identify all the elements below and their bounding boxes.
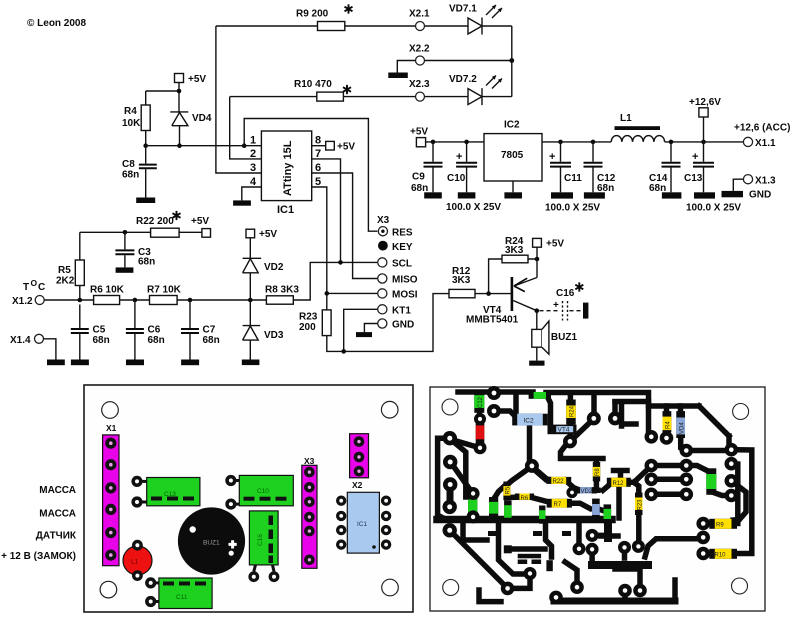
svg-text:C12: C12: [478, 396, 484, 408]
svg-text:R4: R4: [666, 421, 672, 429]
svg-text:IC1: IC1: [277, 204, 294, 216]
node X1.1: [743, 137, 752, 146]
resistor R7 smd: [547, 499, 572, 508]
wire R10 net: [230, 96, 512, 98]
svg-text:МАССА: МАССА: [39, 509, 76, 520]
node X2.2: [416, 56, 425, 65]
trace R9 left: [704, 521, 714, 527]
svg-text:200: 200: [299, 322, 316, 333]
capacitor C13: [703, 142, 705, 192]
svg-text:R6: R6: [521, 496, 529, 502]
trace mid row 3: [651, 492, 686, 498]
svg-text:3K3: 3K3: [452, 275, 471, 286]
svg-text:+ 12 В (ЗАМОК): + 12 В (ЗАМОК): [1, 551, 76, 562]
trace R5 top diag: [508, 467, 531, 485]
cap C9 smd: [706, 468, 716, 495]
cap C14 smd: [468, 494, 477, 518]
cap C7 smd: [604, 504, 612, 523]
node KT1: [378, 305, 387, 314]
diode VD4 smd: [676, 411, 685, 438]
svg-text:C: C: [38, 282, 45, 293]
capacitor C11 pcb: [151, 581, 161, 584]
svg-text:R23: R23: [299, 312, 318, 323]
capacitor C16 pcb: [249, 511, 278, 565]
svg-text:ATtiny 15L: ATtiny 15L: [282, 140, 294, 196]
svg-text:ДАТЧИК: ДАТЧИК: [36, 531, 77, 542]
svg-text:BUZ1: BUZ1: [203, 540, 220, 547]
trace R10 right up: [731, 450, 752, 554]
wire R9 vertical to pin3: [216, 26, 262, 173]
svg-text:BUZ1: BUZ1: [551, 332, 578, 343]
mcu IC1: [261, 131, 311, 201]
svg-text:C11: C11: [176, 594, 188, 601]
mounting hole TR: [733, 404, 749, 420]
svg-text:68n: 68n: [203, 335, 220, 346]
trace VD4 verticals: [678, 406, 684, 416]
resistor R24 smd: [566, 400, 576, 425]
trace C9 bottom: [712, 492, 731, 496]
svg-text:VD4: VD4: [192, 113, 212, 124]
wire pin5 to MOSI/R23: [312, 187, 378, 310]
svg-text:R12: R12: [613, 481, 625, 487]
svg-text:GND: GND: [749, 190, 771, 201]
mounting hole BR: [382, 579, 399, 596]
trace VD2-R8: [592, 476, 599, 490]
wire pin8 to +5V: [312, 145, 326, 147]
trace R5-R6: [507, 495, 518, 498]
capacitor C16 (dashed optional): [535, 308, 540, 313]
node X1.3: [743, 175, 752, 184]
trace C9 top: [686, 466, 706, 471]
pcb board outline: [84, 385, 413, 612]
trace row to right col: [686, 448, 731, 454]
capacitor C3: [123, 230, 128, 235]
trace R6-R7: [531, 497, 553, 502]
svg-text:MOSI: MOSI: [392, 290, 418, 301]
svg-text:C16: C16: [556, 288, 575, 299]
svg-text:VD3: VD3: [264, 330, 284, 341]
svg-text:X2.1: X2.1: [409, 9, 430, 20]
wire pin7 to SCL: [312, 159, 341, 263]
wire R12 to base: [475, 293, 511, 295]
trace T above R12: [614, 471, 628, 480]
wire pin1 node to RES: [244, 119, 377, 232]
transistor VT4 smd: [548, 425, 577, 435]
svg-text:R5: R5: [506, 486, 512, 494]
svg-text:C5: C5: [93, 325, 106, 336]
mounting hole TL: [442, 399, 458, 415]
trace mid pad left: [645, 539, 697, 557]
svg-text:68n: 68n: [93, 335, 110, 346]
trace mid row 1: [651, 463, 686, 469]
power +5V pad R22: [202, 229, 211, 238]
svg-text:6: 6: [315, 162, 321, 174]
svg-text:C13: C13: [684, 173, 703, 184]
svg-text:5: 5: [315, 176, 321, 188]
trace bottom bar left piece: [479, 590, 501, 602]
resistor R23: [322, 310, 331, 336]
svg-text:+5V: +5V: [410, 127, 428, 138]
svg-text:X1.3: X1.3: [755, 176, 776, 187]
wire R23 bottom to R12: [327, 294, 449, 352]
node X2.1: [416, 22, 425, 31]
svg-text:+: +: [692, 151, 698, 163]
trace big bottom bar: [437, 516, 612, 524]
resistor R4: [141, 105, 150, 131]
wire R4 bottom to node: [145, 131, 147, 146]
resistor R5: [79, 232, 81, 300]
diode VD3 smd: [592, 499, 600, 521]
svg-text:© Leon 2008: © Leon 2008: [27, 18, 86, 29]
resistor R10: [317, 92, 344, 101]
trace R8 top: [561, 444, 604, 467]
capacitor C13 pcb: [137, 480, 148, 483]
trace right col to R9: [731, 481, 746, 520]
wire main analog line: [44, 262, 378, 300]
trace mid row 2: [651, 477, 686, 483]
trace H2 upper right: [615, 402, 729, 445]
trace R23 bottom riser: [636, 512, 642, 547]
svg-text:IC2: IC2: [504, 120, 520, 131]
capacitor C8: [145, 146, 147, 198]
resistor R9: [318, 22, 345, 31]
node GND X3: [378, 319, 387, 328]
power +5V pad above R4: [175, 74, 184, 83]
svg-text:R9: R9: [716, 523, 724, 529]
svg-text:R9 200: R9 200: [296, 9, 329, 20]
trace R12 bottom drop: [616, 487, 622, 518]
svg-text:R8 3K3: R8 3K3: [265, 285, 299, 296]
resistor R10 smd: [709, 549, 737, 559]
capacitor C10 pcb: [231, 479, 241, 482]
svg-text:68n: 68n: [122, 170, 139, 181]
chip IC2 smd: [512, 414, 548, 426]
svg-text:IC2: IC2: [524, 418, 535, 425]
capacitor C7: [189, 300, 191, 360]
svg-text:C8: C8: [122, 159, 135, 170]
svg-text:KT1: KT1: [392, 306, 411, 317]
buzzer BUZ1 pcb: [178, 507, 245, 574]
svg-text:R10: R10: [715, 553, 727, 559]
trace pad to IC2: [494, 411, 514, 415]
trace bar drop x579: [576, 521, 582, 548]
svg-text:МАССА: МАССА: [39, 485, 76, 496]
power +5V pad supply: [416, 138, 425, 147]
trace pad y549 row: [507, 546, 545, 552]
trace R9 right up: [731, 464, 738, 524]
buzzer BUZ1: [536, 311, 538, 361]
resistor R7: [150, 296, 178, 305]
trace bottom bar right: [554, 598, 675, 605]
svg-text:10K: 10K: [122, 118, 141, 129]
trace IC2 output riser: [527, 425, 533, 463]
capacitor C5: [79, 305, 81, 360]
svg-text:3K3: 3K3: [505, 245, 524, 256]
trace x498 branch: [499, 521, 527, 574]
svg-text:+5V: +5V: [546, 239, 564, 250]
ground: [388, 73, 408, 79]
pads right pcb: [443, 386, 739, 604]
svg-text:+5V: +5V: [191, 216, 209, 227]
svg-text:L1: L1: [131, 559, 139, 566]
node pin1 net: [143, 143, 148, 148]
svg-text:7805: 7805: [501, 150, 524, 161]
resistor R4 smd: [663, 411, 672, 432]
trace bar comb x545: [546, 521, 552, 557]
resistor R8: [266, 296, 293, 304]
trace left L: [438, 438, 450, 519]
components right pcb: [468, 390, 737, 558]
svg-text:R4: R4: [124, 106, 137, 117]
svg-text:X1: X1: [106, 423, 117, 433]
trace VT4 diag: [570, 419, 594, 442]
svg-text:VD4: VD4: [680, 422, 686, 434]
cap C5 smd: [504, 501, 512, 523]
wire 5V rail: [426, 141, 484, 143]
copper traces: [437, 392, 752, 602]
wire pin4 to ground: [242, 187, 262, 200]
diode VD2 smd: [575, 487, 597, 493]
svg-text:T: T: [23, 282, 29, 293]
svg-text:X1.2: X1.2: [12, 296, 33, 307]
svg-text:VD2: VD2: [581, 489, 593, 495]
svg-text:X2.2: X2.2: [409, 44, 430, 55]
svg-text:C6: C6: [148, 325, 161, 336]
trace bar comb x463: [463, 521, 487, 540]
svg-text:IC1: IC1: [357, 521, 368, 528]
power +12,6V pad: [699, 108, 708, 117]
ground: [233, 200, 251, 205]
wire 12V rail: [542, 141, 743, 143]
trace diag to C14: [452, 464, 472, 496]
svg-text:R22: R22: [553, 479, 565, 485]
resistor R22 smd: [546, 477, 571, 484]
resistor R24: [489, 259, 537, 294]
capacitor C6: [134, 300, 136, 360]
trace top rail H1: [458, 389, 533, 395]
cap C6 smd: [539, 506, 545, 524]
trace C7 bottom: [604, 518, 610, 520]
trace C12 chain: [477, 406, 483, 420]
trace thick mid bar: [592, 561, 648, 569]
svg-text:SCL: SCL: [392, 259, 412, 270]
svg-text:2: 2: [250, 148, 256, 160]
trace R22-VD2: [566, 480, 581, 490]
trace VD2-R12: [603, 482, 612, 490]
smd labels: [478, 396, 726, 558]
svg-text:X1.4: X1.4: [10, 335, 31, 346]
trace long diagonal: [450, 530, 508, 588]
connector X2 pcb: [350, 434, 369, 478]
trace R12 right: [626, 466, 651, 483]
LED VD7.2: [468, 88, 482, 105]
svg-text:VD7.1: VD7.1: [449, 4, 477, 15]
svg-text:R7 10K: R7 10K: [147, 285, 182, 296]
svg-text:C11: C11: [564, 173, 582, 184]
power +5V pad VD2: [246, 229, 255, 238]
svg-text:VT4: VT4: [558, 427, 570, 434]
junction on LED cathode rail: [509, 58, 514, 63]
svg-text:+: +: [456, 151, 462, 163]
wire pin1 line: [146, 145, 262, 147]
svg-text:R8: R8: [595, 468, 601, 476]
svg-text:R22 200: R22 200: [136, 216, 174, 227]
fill shapes bottom comb: [488, 531, 571, 571]
svg-text:X3: X3: [304, 456, 315, 466]
resistor R22: [151, 228, 180, 237]
wire +5V to R4/VD4: [146, 83, 179, 112]
svg-text:L1: L1: [620, 113, 632, 124]
svg-text:C7: C7: [203, 325, 216, 336]
trace R10 left: [704, 551, 714, 557]
resistor R12 smd: [607, 478, 631, 487]
svg-text:C16: C16: [257, 534, 264, 546]
trace bar drop x608: [604, 520, 612, 538]
svg-text:VD7.2: VD7.2: [449, 74, 477, 85]
trace C8 to VT4: [547, 396, 551, 425]
svg-text:1: 1: [250, 135, 256, 147]
mounting hole BR: [732, 578, 748, 594]
node MOSI: [378, 289, 387, 298]
capacitor C10: [466, 142, 468, 192]
svg-text:X1.1: X1.1: [755, 138, 776, 149]
svg-text:R5: R5: [58, 265, 71, 276]
svg-text:68n: 68n: [138, 257, 155, 268]
svg-text:4: 4: [250, 176, 257, 188]
capacitor C14: [670, 142, 672, 192]
mounting hole BL: [100, 581, 117, 598]
diode VD3: [243, 300, 261, 360]
svg-text:X2.3: X2.3: [409, 79, 430, 90]
svg-text:KEY: KEY: [392, 242, 413, 253]
wire KT1: [344, 309, 378, 351]
trace pad diag: [453, 440, 477, 447]
svg-text:VD2: VD2: [264, 262, 284, 273]
resistor R9 smd: [709, 519, 737, 529]
wire X2.2 to ground: [397, 61, 512, 73]
mounting hole TL: [102, 402, 119, 419]
LED VD7.1: [468, 18, 482, 35]
part red X: [476, 421, 485, 443]
svg-text:C9: C9: [412, 172, 425, 183]
svg-text:100.0 X 25V: 100.0 X 25V: [446, 202, 501, 213]
svg-text:C10: C10: [257, 488, 269, 495]
ground: [116, 267, 134, 272]
wire R9 net top rail: [216, 25, 512, 27]
svg-text:100.0 X 25V: 100.0 X 25V: [686, 203, 741, 214]
svg-text:RES: RES: [392, 228, 413, 239]
transistor VT4: [511, 277, 514, 311]
resistor R8 smd: [593, 462, 600, 481]
cap C8 smd: [529, 392, 551, 399]
node MISO: [378, 274, 387, 283]
svg-text:100.0 X 25V: 100.0 X 25V: [545, 203, 600, 214]
cap C12 smd: [474, 390, 484, 412]
capacitor C9: [432, 142, 434, 192]
svg-text:8: 8: [315, 135, 321, 147]
svg-text:+12,6 (ACC): +12,6 (ACC): [734, 123, 790, 134]
svg-text:R10 470: R10 470: [294, 79, 332, 90]
cap C3 smd: [489, 497, 498, 519]
wire pin6 to MISO: [312, 173, 378, 279]
trace dumbbell: [447, 484, 454, 507]
capacitor C11: [560, 142, 562, 192]
svg-text:68n: 68n: [148, 335, 165, 346]
power +5V pad VT4: [533, 238, 542, 247]
mounting hole BL: [443, 580, 459, 596]
inductor L1 pcb (red): [123, 546, 152, 575]
trace VD3-C7: [600, 510, 606, 512]
wire LED cathode rail: [511, 26, 513, 97]
svg-text:O: O: [31, 278, 38, 288]
wire R22 rail: [80, 231, 202, 233]
mounting hole TR: [381, 401, 398, 418]
pcb board outline: [430, 387, 765, 611]
resistor R12: [449, 289, 475, 297]
diode VD4: [170, 112, 188, 146]
resistor R5 smd: [503, 482, 510, 501]
resistor R6: [94, 296, 120, 305]
svg-text:+5V: +5V: [337, 142, 355, 153]
node SCL: [378, 258, 387, 267]
svg-text:+5V: +5V: [259, 229, 277, 240]
resistor R6 smd: [515, 494, 534, 500]
trace pad-R22 diag: [532, 467, 552, 480]
svg-text:+5V: +5V: [188, 74, 206, 85]
svg-text:X3: X3: [377, 215, 390, 226]
ground: [136, 198, 155, 204]
node RES: [378, 227, 387, 236]
svg-text:X2: X2: [352, 480, 363, 490]
trace R24 top: [568, 394, 574, 400]
node KEY: [378, 241, 388, 251]
node X1.2: [35, 296, 44, 305]
resistor R23 smd: [635, 493, 643, 516]
svg-text:C10: C10: [447, 173, 466, 184]
trace bottom pads: [508, 575, 530, 588]
trace R7-VD3: [567, 503, 590, 508]
trace R23 top: [634, 483, 639, 496]
svg-text:+: +: [553, 300, 559, 311]
svg-text:2K2: 2K2: [56, 276, 75, 287]
capacitor C12: [592, 142, 594, 192]
chip IC1 pcb: [336, 496, 391, 550]
trace riser pads to H1: [591, 396, 597, 414]
trace R4 verticals: [664, 406, 670, 412]
svg-text:3: 3: [250, 162, 256, 174]
svg-text:R24: R24: [570, 405, 576, 417]
wire R10 vertical to pin2: [230, 97, 262, 159]
regulator IC2: [484, 134, 542, 181]
svg-text:+12,6V: +12,6V: [689, 97, 721, 108]
svg-text:MISO: MISO: [392, 275, 418, 286]
diode VD2: [243, 238, 262, 300]
trace IC2 input riser: [513, 397, 519, 413]
svg-text:MMBT5401: MMBT5401: [466, 315, 519, 326]
svg-text:R7: R7: [554, 502, 562, 508]
node X1.4: [35, 334, 44, 343]
node X2.3: [416, 92, 425, 101]
svg-text:+: +: [549, 151, 555, 163]
svg-text:R6 10K: R6 10K: [90, 285, 125, 296]
svg-text:R23: R23: [638, 499, 644, 511]
svg-text:GND: GND: [392, 320, 414, 331]
